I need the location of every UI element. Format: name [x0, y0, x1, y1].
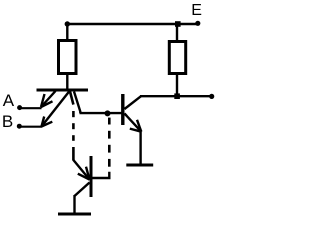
wire: T2 emitter down to ground — [139, 131, 141, 165]
wire: R2 bottom lead — [176, 75, 178, 96]
transistor T1 emitter to input B (arrow) — [42, 91, 70, 127]
dashed link: T1 base down to T3 emitter (top solid slant) — [70, 92, 73, 105]
dashed link: dash segments — [72, 111, 75, 141]
transistor T2 base bar — [121, 94, 124, 125]
node: supply terminal E — [195, 21, 200, 26]
wire: T1 collector to T2 base — [80, 112, 122, 114]
svg-text:A: A — [3, 91, 15, 110]
wire: positive supply rail — [67, 23, 198, 25]
ground: bottom ground bar — [58, 213, 91, 216]
junction: rail to R2 — [175, 21, 181, 27]
dashed link: lower solid segment — [72, 147, 75, 161]
wire: T3 collector down to ground — [73, 195, 75, 213]
resistor R2 — [169, 42, 185, 74]
transistor T3 emitter (arrow into base bar) — [73, 160, 89, 180]
node: input A terminal — [17, 105, 22, 110]
wire: T2 collector to R2 and output — [140, 95, 212, 97]
junction: R2 bottom to collector wire — [174, 93, 180, 99]
transistor T2 emitter (arrow) — [125, 114, 142, 132]
svg-text:E: E — [191, 2, 202, 19]
svg-text:B: B — [2, 112, 13, 131]
node: input B terminal — [17, 124, 22, 129]
node: output terminal — [209, 94, 214, 99]
wire: input A to emitter — [20, 107, 42, 109]
transistor T2 collector lead — [125, 96, 142, 109]
ground: T2 emitter ground bar — [126, 164, 153, 167]
dashed link: junction dot down to T3 base — [108, 118, 111, 167]
wire: input B to emitter — [19, 126, 42, 128]
node: rail junction above R1 — [65, 21, 70, 26]
wire: T3 base lead — [92, 172, 109, 178]
resistor R1 — [59, 41, 77, 74]
transistor T1 collector lead — [74, 92, 80, 114]
transistor T3 base bar — [90, 156, 93, 197]
transistor T3 collector lead — [75, 183, 90, 197]
wire: R2 top lead — [176, 24, 178, 40]
transistor T1 base bar — [37, 89, 89, 92]
node: junction dot on collector wire — [105, 110, 111, 116]
wire: R1 bottom lead to T1 base — [66, 75, 68, 90]
transistor T1 emitter to input A (arrow) — [41, 91, 56, 107]
wire: R1 top lead — [66, 24, 68, 39]
